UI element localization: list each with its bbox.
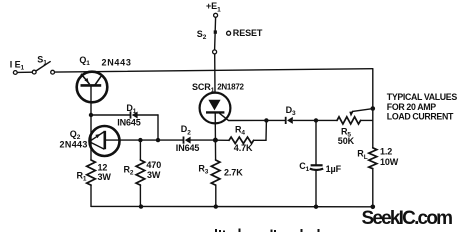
svg-text:LOAD CURRENT: LOAD CURRENT	[387, 112, 454, 122]
svg-text:3W: 3W	[98, 172, 112, 182]
svg-text:2N443: 2N443	[60, 139, 88, 149]
svg-text:470: 470	[146, 160, 161, 170]
svg-text:IN645: IN645	[176, 143, 200, 153]
svg-text:4.7K: 4.7K	[234, 143, 253, 153]
svg-text:2N443: 2N443	[102, 57, 132, 67]
svg-text:IN645: IN645	[117, 117, 141, 127]
svg-text:SeekIC.com: SeekIC.com	[362, 208, 453, 229]
svg-text:10W: 10W	[380, 157, 399, 167]
svg-text:RESET: RESET	[233, 28, 263, 38]
svg-text:1µF: 1µF	[326, 164, 342, 174]
svg-text:2.7K: 2.7K	[224, 167, 243, 177]
svg-text:12: 12	[98, 163, 108, 173]
svg-text:1.2: 1.2	[380, 146, 392, 156]
svg-text:3W: 3W	[147, 170, 161, 180]
svg-text:FOR 20 AMP: FOR 20 AMP	[387, 102, 436, 112]
svg-text:2N1872: 2N1872	[217, 82, 244, 91]
svg-text:50K: 50K	[338, 136, 355, 146]
svg-text:TYPICAL VALUES: TYPICAL VALUES	[387, 92, 458, 102]
